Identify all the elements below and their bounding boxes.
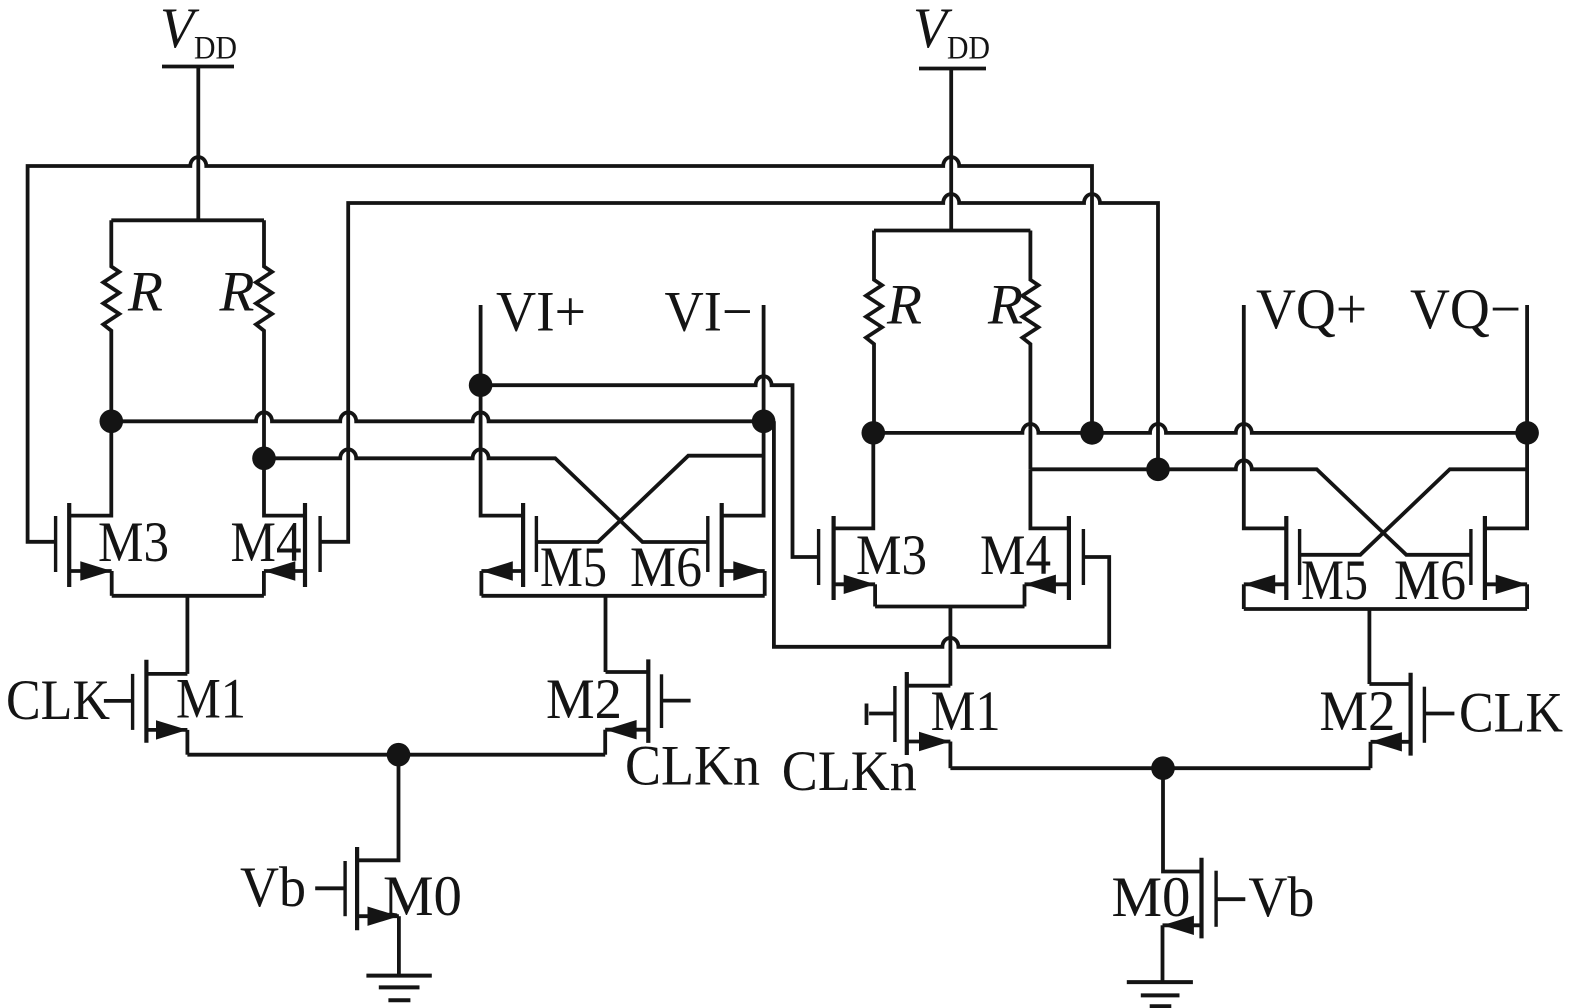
wire VDD2 stem [949,69,953,231]
transistor M1 (stage 1) [144,660,148,743]
transistor M4 (stage 2) [1067,516,1071,600]
svg-text:M0: M0 [1112,866,1191,929]
node dot: A2 / M3 drain (stage 2) [862,421,886,445]
transistor M5 (stage 2) [1284,516,1288,600]
svg-text:M3: M3 [856,524,927,587]
svg-text:VI+: VI+ [496,281,586,344]
svg-text:M4: M4 [231,511,302,574]
resistor R (stage 2 left) [866,231,882,433]
svg-text:M5: M5 [1301,549,1368,612]
wire node A (stage 1: M3 drain / left resistor to VI-) [111,412,763,421]
svg-text:M4: M4 [980,524,1051,587]
svg-text:M6: M6 [1394,549,1466,612]
wire VI- / M6 drain [722,305,764,516]
wire tail to M0 drain (stage 2) [1163,768,1202,871]
node dot: B / right resistor / M4 drain [252,447,276,471]
resistor R (stage 1 right) [256,220,272,458]
wire VDD1 stem [196,67,200,221]
node dot: tail (stage 2) [1151,756,1175,780]
wire node A2 (stage 2: M3 drain to VQ-) [873,424,1527,433]
svg-text:R: R [987,274,1023,337]
svg-text:R: R [127,261,163,324]
wire second rail: node B2 feedback to M4 gate (stage 1) [320,194,1158,542]
wire source bar to M1 drain (stage 2) [949,607,953,686]
wire VQ+ / M5 drain (stage 2) [1244,305,1287,528]
wire tail to M0 drain (stage 1) [357,755,398,861]
transistor M6 (stage 2) [1483,516,1487,600]
svg-text:M5: M5 [540,536,607,599]
transistor M2 (stage 1) [646,659,650,743]
node dot: A2 / rail-1 junction [1080,421,1104,445]
transistor M3 (stage 2) [831,516,835,600]
svg-text:VQ+: VQ+ [1256,278,1367,341]
wire top rail: node A2 feedback to M3 gate (stage 1) [28,157,1092,542]
ground (stage 2) [1127,980,1193,984]
wire M3/M4 common source bar [112,594,264,598]
wire M3/M4 common source bar (stage 2) [875,605,1024,609]
svg-text:M6: M6 [630,536,702,599]
svg-text:Vb: Vb [240,856,306,919]
svg-text:CLK: CLK [1459,682,1563,745]
node dot: B2 / rail-2 junction [1146,458,1170,482]
svg-text:M1: M1 [931,680,1001,743]
wire VI+ / M5 drain [481,305,523,516]
svg-text:VI−: VI− [665,281,753,344]
node dot: tail (stage 1) [387,743,411,767]
svg-text:M3: M3 [98,511,169,574]
transistor M0 (stage 1) [355,847,359,930]
wire source bar to M1 drain [185,596,189,674]
node dot: VI- / wire A end [752,410,776,434]
svg-text:M2: M2 [546,668,622,731]
transistor M3 (stage 1) [67,503,71,587]
svg-text:DD: DD [194,31,237,67]
svg-text:R: R [886,274,922,337]
svg-text:Vb: Vb [1248,866,1314,929]
ground (stage 1) [366,974,431,978]
transistor M2 (stage 2) [1408,673,1412,756]
svg-text:M1: M1 [176,668,246,731]
svg-text:VQ−: VQ− [1410,278,1521,341]
resistor R (stage 1 left) [103,220,119,421]
node dot: A / left resistor / M3 drain [100,410,124,434]
wire node B2 (stage 2: right resistor to M6 gate, cross-couple) [1030,460,1471,555]
wire VQ- / M6 drain (stage 2) [1485,305,1527,528]
wire resistor top bar (stage 2) [874,229,1030,233]
svg-text:CLKn: CLKn [782,740,917,803]
node dot: VI+ tap [469,373,493,397]
node dot: VQ- / wire A2 end [1515,421,1539,445]
wire latch bar to M2 drain (stage 2) [1368,609,1372,684]
wire M5/M6 common source bar (stage 2) [1244,607,1527,611]
wire node B (stage 1: right resistor to M6 gate, cross-couple) [264,449,708,542]
transistor M6 (stage 1) [720,503,724,587]
wire tail node (stage 1) [187,753,605,757]
svg-text:DD: DD [947,31,990,67]
transistor M1 (stage 2) [905,672,909,755]
svg-text:M2: M2 [1319,680,1395,743]
wire VQ- to M5 gate (stage 2 cross-couple) [1300,469,1528,555]
wire M5/M6 common source bar [481,594,764,598]
transistor M5 (stage 1) [521,503,525,587]
wire latch bar to M2 drain [604,596,608,672]
wire VI+ tap to stage-2 M3 gate [481,376,819,557]
resistor R (stage 2 right) [1022,231,1038,470]
wire VI- feedback to stage-2 M4 gate [774,421,1109,647]
svg-text:CLK: CLK [6,669,110,732]
svg-text:CLKn: CLKn [625,734,760,797]
svg-text:M0: M0 [383,865,462,928]
wire VI- to M5 gate (cross-couple) [536,456,763,542]
wire resistor top bar (stage 1) [111,218,264,222]
svg-text:R: R [218,261,254,324]
transistor M4 (stage 1) [303,503,307,587]
transistor M0 (stage 2) [1199,858,1203,939]
wire tail node (stage 2) [950,766,1370,770]
